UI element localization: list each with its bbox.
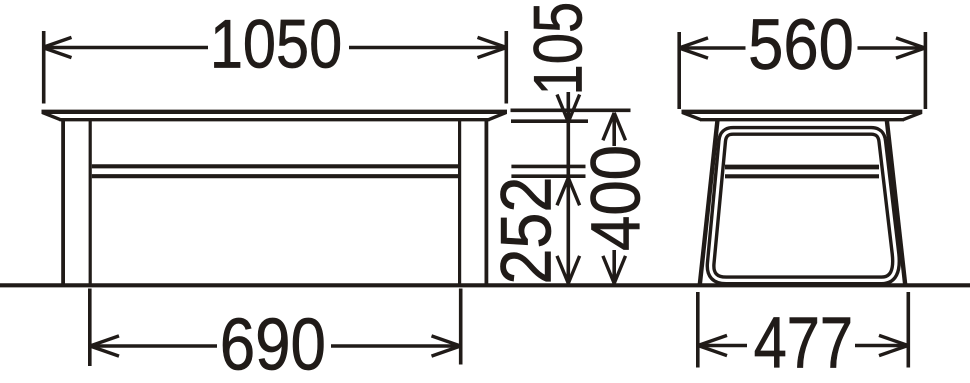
- dim 400 arrow up: [603, 113, 626, 141]
- dim 560 extension line left: [677, 32, 681, 109]
- dim 1050 arrow right: [478, 37, 507, 57]
- dim 1050 extension line right: [504, 31, 508, 104]
- svg-text:252: 252: [486, 177, 566, 285]
- label 400: [578, 145, 655, 251]
- extension line shelf bottom: [511, 174, 585, 178]
- svg-text:1050: 1050: [210, 5, 342, 82]
- dim 560 line: [679, 46, 925, 50]
- dim 477 extension line left: [696, 292, 700, 368]
- extension line tabletop top: [511, 109, 631, 113]
- dim 690 extension line right: [459, 289, 463, 365]
- side view left leg: [700, 120, 718, 286]
- dim 690 line: [90, 344, 461, 348]
- dim 1050 arrow left: [43, 37, 72, 57]
- dim 477 line: [698, 344, 908, 348]
- dim 560 extension line right: [924, 32, 928, 109]
- floor line: [0, 283, 970, 287]
- dim 1050 extension line left: [42, 31, 46, 104]
- side view frame inner: [711, 131, 896, 281]
- dim 690 extension line left: [88, 289, 92, 367]
- svg-text:690: 690: [220, 303, 326, 383]
- dim 477 arrow right: [879, 335, 908, 355]
- label 690: [220, 303, 326, 383]
- extension line shelf top: [511, 165, 585, 169]
- dim 105 arrow down: [557, 95, 580, 123]
- dim 690 arrow left: [90, 336, 119, 356]
- svg-text:560: 560: [748, 5, 854, 84]
- dim 400 arrow down: [603, 256, 626, 284]
- dim 560 arrow left: [679, 38, 708, 58]
- extension line tabletop bottom: [511, 119, 588, 123]
- dim 477 extension line right: [906, 292, 910, 368]
- svg-text:400: 400: [578, 145, 655, 251]
- dim 252 arrow down: [557, 256, 580, 284]
- dim 400 line: [612, 113, 616, 284]
- side view shelf: [725, 167, 879, 176]
- dim 105-252 stem: [566, 92, 570, 283]
- label 560: [748, 5, 854, 84]
- label 252: [486, 177, 566, 285]
- front view shelf: [92, 166, 458, 176]
- front view left leg: [63, 120, 90, 286]
- dim 252 arrow up: [557, 178, 580, 206]
- dim 560 arrow right: [896, 38, 925, 58]
- label 1050: [210, 5, 342, 82]
- dim 477 arrow left: [698, 335, 727, 355]
- side view frame outer: [711, 131, 896, 281]
- front view right leg: [460, 120, 487, 286]
- dim 690 arrow right: [432, 336, 461, 356]
- label 105: [520, 2, 596, 96]
- label 477: [754, 303, 853, 383]
- front view tabletop: [42, 112, 508, 120]
- side view tabletop: [682, 112, 923, 120]
- dim 1050 line: [43, 46, 507, 50]
- svg-text:105: 105: [520, 2, 596, 96]
- side view right leg: [887, 120, 906, 286]
- svg-text:477: 477: [754, 303, 853, 383]
